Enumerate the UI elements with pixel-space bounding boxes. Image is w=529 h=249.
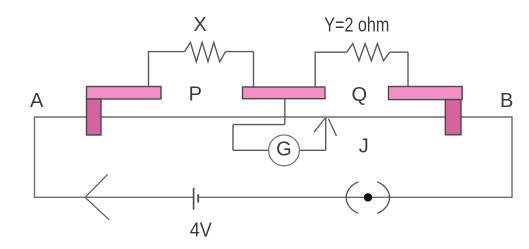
wire X branch right horizontal <box>226 51 254 53</box>
wire Y branch left horizontal <box>315 51 347 53</box>
wire Y branch left vertical <box>314 52 316 87</box>
wire X branch left vertical <box>148 52 150 87</box>
key symbol center dot <box>364 193 372 201</box>
wire X branch left horizontal <box>148 51 185 53</box>
svg-text:B: B <box>500 90 513 112</box>
resistor Y <box>347 44 390 61</box>
key symbol right arc <box>377 182 389 214</box>
wire Y branch right horizontal <box>390 51 408 53</box>
svg-text:G: G <box>276 138 292 160</box>
wire galvanometer branch: step left <box>233 124 285 126</box>
svg-text:4V: 4V <box>190 220 213 242</box>
copper strip right horizontal <box>389 87 463 100</box>
galvanometer G circle <box>269 135 300 166</box>
svg-text:X: X <box>193 14 206 36</box>
wire X branch right vertical <box>253 52 255 88</box>
wire main bridge wire A-B <box>35 116 513 118</box>
resistor X <box>185 42 226 61</box>
svg-text:Y=2 ohm: Y=2 ohm <box>324 14 389 36</box>
wire galvanometer branch: left vertical <box>232 125 234 151</box>
wire galvanometer branch: G to jockey <box>300 149 326 151</box>
wire galvanometer branch: to G <box>233 149 269 151</box>
jockey arrow right stroke <box>328 119 336 136</box>
wire jockey stem <box>325 118 327 151</box>
svg-text:A: A <box>30 90 44 112</box>
copper strip left horizontal <box>87 87 162 100</box>
current arrow on bottom wire <box>85 174 109 219</box>
wire left vertical A down <box>34 116 36 197</box>
copper strip right vertical <box>445 100 461 135</box>
wire right vertical B down <box>511 116 513 197</box>
svg-text:P: P <box>189 84 202 106</box>
wire Y branch right vertical <box>407 52 409 87</box>
svg-text:Q: Q <box>352 84 368 106</box>
wire bottom right segment from battery <box>198 196 513 198</box>
key symbol left arc <box>346 182 358 214</box>
copper strip left vertical <box>87 99 102 135</box>
copper strip middle <box>243 87 326 99</box>
jockey arrow left stroke <box>314 118 325 132</box>
battery long plate <box>193 188 195 210</box>
svg-text:J: J <box>359 135 369 157</box>
wire bottom left segment to battery <box>34 196 194 198</box>
battery short plate <box>197 194 199 202</box>
wire galvanometer branch: strip down <box>284 99 286 125</box>
